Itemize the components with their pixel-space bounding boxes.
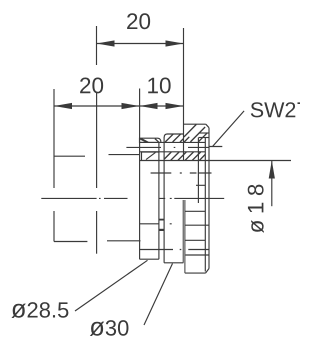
o18 text [248,185,264,233]
arrow right top20 [166,40,184,46]
arrow mid-right row2 [140,103,158,109]
arrow left row2 [54,103,72,109]
arrow mid-left row2 [122,103,140,109]
ring A hatch (backslash) [140,139,159,143]
line y225.2 right [185,224,209,226]
ring A right face [158,142,160,259]
hex right face [208,128,210,269]
ext line x96.5 top [96,26,98,65]
panel left face upper [53,89,55,188]
panel hole top edge [54,155,85,157]
o30 leader [144,264,173,326]
line y173 mid [151,172,212,174]
body B bottom face [164,262,183,264]
hex hatch [184,124,207,142]
ext/part right face x183.5 upper [183,28,185,161]
dim line 20 top [97,43,184,45]
o18 arrow [269,161,275,179]
dim text 10 row2 [148,77,170,93]
hole bottom edge segment2 [107,240,141,242]
body B hatch [165,134,183,142]
nut left face [184,200,186,273]
dim text 20 top [127,13,150,29]
panel hole bottom edge [54,241,87,243]
thread start line [199,137,209,139]
line y249.5 lower [140,249,209,251]
ring A hatch2 [141,139,148,143]
part left face x139.6 [139,89,141,260]
nut bottom chamfer [206,269,210,274]
o30 text [90,320,129,336]
line y223.8 left [140,223,172,225]
panel left face lower [53,211,55,242]
body B shoulder top [164,134,183,137]
ladder rung upper [159,219,164,221]
o28.5 leader [75,260,148,311]
SW27 text [251,102,307,117]
thread boundary vertical [197,138,199,204]
SW27 leader [209,111,244,147]
body B right face lower [182,200,184,263]
hex top face [184,123,206,125]
internal line y142.3 [140,141,206,143]
ladder rung lower [159,229,164,231]
o18 dim line [271,161,273,207]
thread root [204,138,206,272]
axis centerline [41,197,224,199]
body B left face [163,137,165,263]
o18 bore line + extension [140,160,291,162]
arrow left top20 [97,40,115,46]
hole top edge segment2 [109,154,140,156]
clip box [142,152,159,160]
internal line y151.8 [140,151,206,153]
nut internal lines [185,185,209,255]
ring A top band [140,138,161,142]
dim line row2 [54,105,184,107]
dim text 20 row2 [80,77,103,93]
arrow right row2 [166,103,184,109]
nut bottom face [185,272,206,274]
clip diagonal [146,152,156,159]
panel right face mid [96,93,98,188]
hex corner chamfer [206,124,209,128]
o28.5 text [11,302,68,318]
hex chamfer line [199,132,209,134]
pipe line y147.4 [126,146,209,148]
lower hatch band [164,152,205,160]
panel right face lower [96,211,98,254]
ring A bottom face [140,258,159,260]
